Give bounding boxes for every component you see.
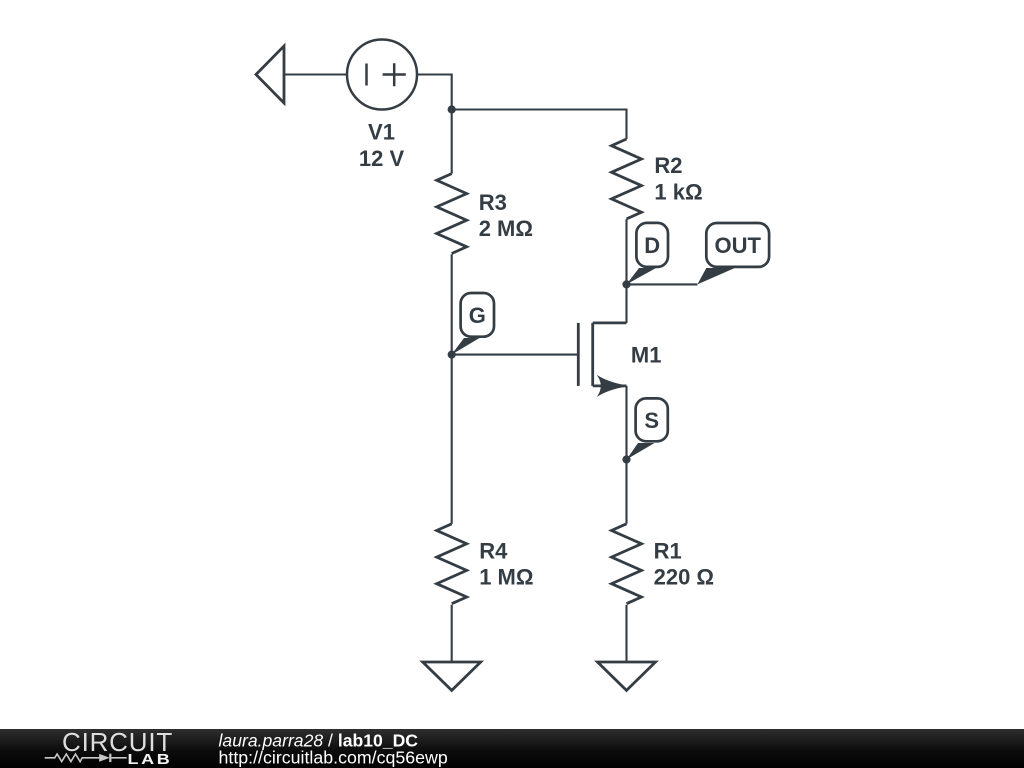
svg-text:LAB: LAB (128, 750, 173, 767)
svg-text:S: S (644, 408, 659, 433)
svg-text:R2: R2 (654, 153, 682, 178)
svg-text:M1: M1 (631, 343, 662, 368)
svg-text:G: G (469, 303, 486, 328)
svg-text:R3: R3 (479, 190, 507, 215)
svg-text:V1: V1 (368, 119, 395, 144)
svg-text:12 V: 12 V (359, 146, 405, 171)
svg-text:http://circuitlab.com/cq56ewp: http://circuitlab.com/cq56ewp (219, 748, 448, 768)
svg-text:1 kΩ: 1 kΩ (654, 179, 702, 204)
svg-text:220 Ω: 220 Ω (654, 565, 714, 590)
svg-text:D: D (644, 233, 660, 258)
svg-text:2 MΩ: 2 MΩ (479, 216, 533, 241)
svg-text:R1: R1 (654, 539, 682, 564)
svg-text:1 MΩ: 1 MΩ (479, 565, 533, 590)
svg-text:OUT: OUT (714, 233, 761, 258)
svg-text:R4: R4 (479, 539, 508, 564)
